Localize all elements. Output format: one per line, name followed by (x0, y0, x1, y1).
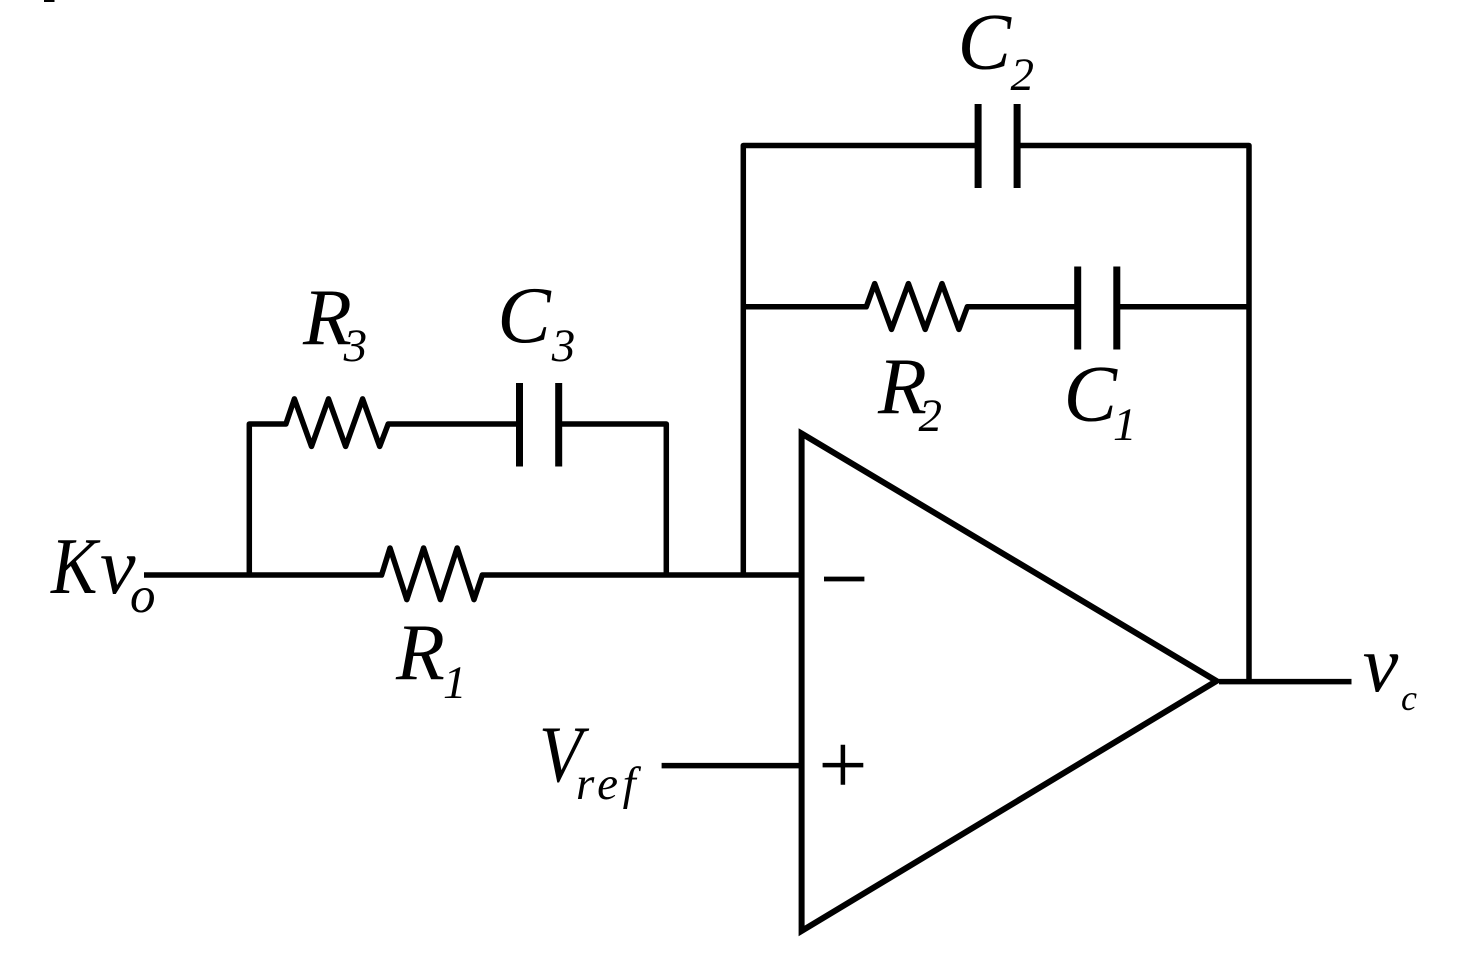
svg-text:2: 2 (919, 390, 943, 442)
svg-text:C: C (1064, 351, 1119, 439)
svg-text:v: v (1363, 621, 1399, 709)
svg-text:ref: ref (576, 758, 642, 810)
svg-text:3: 3 (551, 320, 576, 372)
svg-text:K: K (50, 523, 101, 612)
svg-text:C: C (958, 0, 1013, 87)
svg-text:2: 2 (1011, 49, 1035, 101)
svg-text:1: 1 (1113, 399, 1137, 451)
svg-text:R: R (395, 609, 445, 697)
svg-text:3: 3 (343, 320, 368, 372)
svg-text:c: c (1401, 678, 1417, 718)
svg-text:1: 1 (443, 657, 467, 709)
svg-text:C: C (497, 272, 552, 360)
svg-text:o: o (130, 568, 156, 624)
